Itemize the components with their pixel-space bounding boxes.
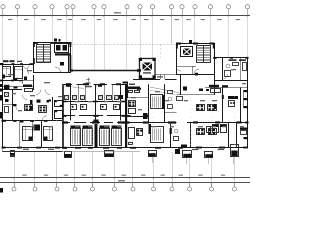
mid balcony boxes (149, 151, 157, 157)
middle mid wall (63, 115, 126, 117)
left bedroom beds (23, 127, 33, 141)
living TV (129, 143, 133, 145)
left dining room details (52, 97, 54, 121)
right block storage marks (199, 89, 203, 92)
left dining tables (25, 105, 33, 111)
left unit bottom wall (2, 147, 62, 149)
left bedroom walls (32, 121, 34, 132)
left unit lower wall (2, 120, 62, 122)
interior grid hints (34, 92, 36, 146)
rm fixtures (168, 91, 173, 94)
wall door openings (72, 84, 77, 86)
left closet fixtures (5, 93, 9, 97)
roof hatch marks above left block (54, 39, 57, 42)
bottom dimension line 2 (0, 182, 250, 184)
corridor top wall (71, 70, 140, 72)
left kitchen band (2, 86, 33, 88)
living bed (151, 127, 164, 143)
right unit hall walls (214, 64, 216, 95)
middle party wall (95, 124, 98, 148)
middle vertical wall g (120, 84, 122, 120)
right bay window (244, 90, 249, 92)
left unit bedroom walls (13, 64, 15, 81)
right block lower walls (177, 66, 197, 68)
left stairwell treads (37, 45, 51, 63)
middle vertical wall d (95, 84, 97, 120)
mid balcony line (63, 151, 141, 153)
right lower arches (213, 125, 219, 133)
right elevator car symbol (143, 63, 153, 71)
left kitchen dark band (4, 85, 10, 90)
corridor floor drain symbol (88, 78, 90, 83)
right wall x229 (228, 122, 230, 147)
middle desk row furniture (71, 105, 77, 110)
right block door arcs (194, 69, 199, 74)
right upper room labels (229, 59, 237, 61)
right corridor bottom wall (133, 79, 160, 81)
right upper rooms top wall (214, 57, 248, 59)
right block elevator (181, 47, 193, 57)
middle horizontal wall (63, 101, 126, 103)
top grid bubbles (1, 5, 5, 9)
dimension ticks bottom (13, 177, 15, 179)
left elevator lobby fixture (60, 62, 64, 66)
right kitchen band (205, 87, 248, 89)
stem below right box (233, 157, 235, 165)
right dining tables low (197, 129, 205, 135)
right edge wall (247, 58, 249, 148)
left unit columns (37, 100, 41, 103)
middle top row label (86, 86, 92, 87)
middle vertical wall e (104, 84, 106, 102)
left balcony edge (2, 151, 62, 153)
middle beds left pair (71, 126, 81, 129)
left unit inner door arcs (23, 95, 28, 100)
right lobby text (157, 76, 163, 77)
right dining tables (197, 105, 205, 111)
left small bedroom A bed (3, 67, 11, 77)
left balcony labels (23, 149, 29, 150)
bottom wall mid-right (125, 147, 191, 149)
middle units top row walls (62, 64, 64, 87)
left elevator (55, 44, 69, 53)
middle bottom wall (63, 147, 126, 149)
rm kitchen counters (128, 87, 140, 90)
right bathroom fixtures (226, 64, 230, 68)
vertical grid lines lower (14, 152, 16, 187)
right bottom unit walls (236, 122, 238, 147)
rm mid wall segment (127, 116, 148, 118)
rm lower unit fixtures (174, 129, 178, 133)
corridor end chunk (137, 69, 141, 72)
dimension ticks top (2, 15, 4, 17)
middle vertical wall b (78, 84, 80, 102)
left unit hall walls (23, 80, 34, 82)
top dimension texts (8, 19, 12, 20)
middle appliances (65, 96, 69, 100)
left balcony planter (11, 151, 15, 157)
rm dining tables (129, 101, 136, 107)
right balcony boxes (205, 152, 213, 158)
duct room near shaft (123, 82, 129, 84)
left unit mid walls (33, 75, 35, 90)
rm unit left wall (125, 84, 127, 123)
rm walls 2 (164, 84, 166, 122)
middle upper window chunks (62, 101, 67, 103)
stems below mid boxes (152, 157, 154, 163)
right bay room fixtures (240, 128, 248, 130)
rm wardrobe box (143, 113, 148, 119)
bottom dimension texts (22, 175, 26, 176)
room label specks (8, 74, 13, 75)
right lobby stubs (160, 75, 162, 80)
left unit top labels (3, 60, 9, 62)
right balcony dark box (175, 149, 180, 154)
left stair block outline (34, 43, 71, 73)
bottom wall right (191, 147, 249, 149)
party wall middle-right lower (125, 122, 127, 147)
middle lower wall dark (63, 122, 126, 124)
right bathroom walls (222, 58, 224, 80)
vertical grid lines upper (2, 16, 4, 64)
left small bedroom B bed (15, 67, 23, 79)
left unit left wall (2, 64, 4, 148)
left elevator lower band (55, 53, 71, 55)
middle vertical wall a (70, 84, 72, 120)
left corridor bits (24, 77, 27, 81)
roof hatch mark above right block (189, 40, 192, 43)
corridor bottom boundary (63, 84, 126, 86)
middle AC boxes (65, 152, 72, 158)
living sofa set (129, 128, 135, 139)
party wall left-middle (62, 84, 64, 148)
middle vertical wall f (112, 84, 114, 102)
left edge black mark (0, 188, 3, 193)
middle beds right pair (100, 126, 110, 129)
setback dashed line (66, 44, 180, 46)
left unit top wall (2, 64, 34, 66)
right lobby ramp (150, 87, 180, 93)
right top block outline (177, 44, 215, 75)
right mid lower wall (125, 122, 177, 124)
rm bed upper (151, 95, 163, 109)
corridor ramp lines (63, 86, 85, 89)
right elevator shaft (140, 59, 156, 79)
right block stairwell (197, 46, 211, 63)
middle small fixtures (66, 85, 70, 87)
middle vertical wall c (85, 84, 87, 102)
rm hall fixtures (177, 97, 183, 101)
bottom dimension line 1 (0, 177, 250, 179)
right shaft label (143, 72, 151, 73)
top dimension line (0, 15, 250, 17)
bottom grid bubbles (14, 183, 16, 187)
rm walls (148, 84, 150, 122)
party wall junction chunk (94, 120, 99, 124)
bottom right balcony labels (192, 149, 199, 150)
right kitchen room mid (222, 88, 224, 123)
right lower wall extension (187, 122, 248, 124)
living walls (170, 122, 172, 147)
right low walls (190, 122, 192, 147)
